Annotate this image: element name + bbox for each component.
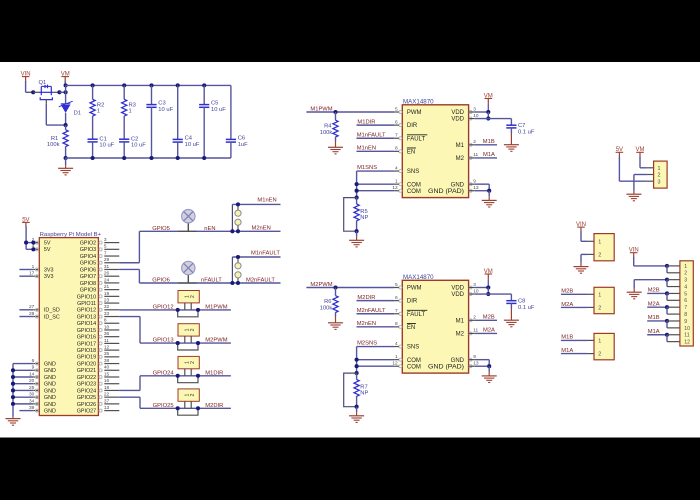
pin 2 M1 of M1 driver <box>469 143 472 146</box>
svg-text:GPIO12: GPIO12 <box>153 305 174 311</box>
pin 1 COM of M1 driver <box>399 183 402 186</box>
svg-text:M2DIR: M2DIR <box>205 403 223 409</box>
svg-text:10: 10 <box>104 324 110 330</box>
svg-text:GPIO3: GPIO3 <box>80 247 96 253</box>
node COM junctions <box>355 358 359 362</box>
pin GND (pin 34) of J1 <box>33 403 39 405</box>
svg-text:VDD: VDD <box>451 117 464 123</box>
svg-text:35: 35 <box>104 351 110 357</box>
wire SNS to COM bus <box>356 347 358 374</box>
pin GPIO17 (pin 11) of J1 <box>104 342 119 344</box>
svg-text:GPIO6: GPIO6 <box>80 267 96 273</box>
svg-text:GPIO5: GPIO5 <box>152 226 170 232</box>
resistor R4 100k <box>335 112 337 120</box>
svg-text:M2: M2 <box>456 332 465 338</box>
svg-text:7: 7 <box>684 305 687 311</box>
resistor R1 100k <box>65 125 67 130</box>
svg-text:GPIO17: GPIO17 <box>77 341 96 347</box>
svg-text:C8: C8 <box>518 299 525 305</box>
svg-text:18: 18 <box>104 385 110 391</box>
svg-text:M1: M1 <box>456 143 465 149</box>
pin 10 VDD of M2 driver <box>469 293 472 296</box>
ground VIN connector <box>574 266 589 268</box>
wire pin 2 to ground <box>634 174 647 176</box>
svg-text:10: 10 <box>684 326 690 332</box>
connector body M2 <box>587 293 594 295</box>
jumper JP2 <box>178 324 199 336</box>
node R1 bottom rail <box>64 156 68 160</box>
ground 12-pin header <box>627 291 642 293</box>
wire VDD pins <box>469 287 475 289</box>
svg-text:M1nFAULT: M1nFAULT <box>357 132 386 138</box>
pin 13 GND (PAD) of M1 driver <box>469 189 472 192</box>
pin GND (pin 20) of J1 <box>33 383 39 385</box>
svg-text:10 uF: 10 uF <box>211 107 226 113</box>
pin GPIO19 (pin 35) of J1 <box>104 356 119 358</box>
svg-text:3V3: 3V3 <box>44 274 54 280</box>
wire M2A output <box>475 332 497 334</box>
svg-text:PWM: PWM <box>407 286 422 292</box>
wire VIN to pin 1 <box>580 232 582 242</box>
svg-text:GPIO2: GPIO2 <box>80 241 96 247</box>
wire COM pins <box>357 183 395 185</box>
svg-text:31: 31 <box>104 264 110 270</box>
wire GPIO24 to jumper <box>119 389 140 391</box>
svg-text:GND: GND <box>44 402 56 408</box>
pin GPIO27 (pin 13) of J1 <box>104 410 119 412</box>
svg-text:C4: C4 <box>185 135 193 141</box>
wire pin 2 to ground <box>581 253 587 255</box>
ground M2 driver <box>488 366 490 372</box>
svg-text:1: 1 <box>684 264 687 270</box>
connector 12-pin header <box>680 261 693 346</box>
node 5V junctions <box>24 241 28 245</box>
capacitor C4 10 uF <box>176 83 180 87</box>
pin 12 COM of M1 driver <box>399 189 402 192</box>
ground J1 <box>12 417 14 419</box>
svg-text:DIR: DIR <box>407 123 418 129</box>
svg-text:COM: COM <box>407 364 421 370</box>
wire M1nEN input <box>357 150 395 152</box>
svg-text:SNS: SNS <box>407 345 419 351</box>
pin 8 EN of M2 driver <box>399 325 402 328</box>
pin 1 COM of M2 driver <box>399 358 402 361</box>
svg-text:1: 1 <box>129 109 132 115</box>
wire VM top rail <box>66 84 231 86</box>
pin 3V3 (pin 17) of J1 <box>33 275 39 277</box>
svg-text:1: 1 <box>598 292 601 298</box>
svg-text:M2PWM: M2PWM <box>205 338 227 344</box>
pin 11 M2 of M1 driver <box>469 156 472 159</box>
pin GPIO2 (pin 3) of J1 <box>104 242 119 244</box>
svg-text:M1: M1 <box>456 318 465 324</box>
pin GPIO24 (pin 18) of J1 <box>104 389 119 391</box>
svg-text:GPIO25: GPIO25 <box>153 403 174 409</box>
pin GPIO23 (pin 16) of J1 <box>104 383 119 385</box>
pin ID_SC (pin 28) of J1 <box>33 316 39 318</box>
svg-text:2: 2 <box>190 394 196 397</box>
svg-text:M2nEN: M2nEN <box>357 321 376 327</box>
capacitor C8 0.1 uF <box>506 300 516 302</box>
ground 3-pin connector <box>626 193 641 195</box>
wire GPIO5 to nEN <box>119 262 139 264</box>
ground C7 <box>510 128 512 133</box>
svg-text:GND: GND <box>44 368 56 374</box>
svg-text:GPIO12: GPIO12 <box>77 308 96 314</box>
wire M2A <box>561 306 588 308</box>
node D1/R1/gate junction <box>64 123 68 127</box>
pin GPIO10 (pin 19) of J1 <box>104 295 119 297</box>
svg-text:4: 4 <box>684 284 687 290</box>
node VIN-Q1 junction <box>31 90 35 94</box>
wire GPIO6 to nFAULT <box>119 268 139 270</box>
svg-text:32: 32 <box>104 304 110 310</box>
wire D1 to node <box>65 113 67 125</box>
svg-text:M1PWM: M1PWM <box>310 106 332 112</box>
wire nEN branch left <box>231 204 233 231</box>
svg-text:C7: C7 <box>518 123 525 129</box>
node GND junction <box>487 189 491 193</box>
svg-text:2: 2 <box>598 352 601 358</box>
wire COM pins <box>357 359 395 361</box>
svg-text:5: 5 <box>684 291 687 297</box>
wire Q1 drain to VM rail <box>53 91 59 93</box>
pin GPIO18 (pin 12) of J1 <box>104 349 119 351</box>
svg-text:R6: R6 <box>324 299 331 305</box>
pin GPIO16 (pin 36) of J1 <box>104 336 119 338</box>
pin GND (pin 6) of J1 <box>33 363 39 365</box>
wire 5V bus <box>25 227 27 250</box>
svg-text:100k: 100k <box>320 130 333 136</box>
node GND junction <box>487 364 491 368</box>
wire M1nEN <box>232 203 280 205</box>
svg-text:0.1 uF: 0.1 uF <box>518 130 535 136</box>
ground M1 driver <box>488 191 490 197</box>
svg-text:GPIO10: GPIO10 <box>77 294 96 300</box>
wire M1PWM input <box>306 111 394 113</box>
pin GPIO3 (pin 5) of J1 <box>104 248 119 250</box>
svg-text:29: 29 <box>104 257 110 263</box>
wire jumper bypass JP3 <box>178 376 198 383</box>
svg-text:0.1 uF: 0.1 uF <box>518 305 535 311</box>
wire VDD to bypass cap <box>488 293 511 295</box>
svg-text:GPIO25: GPIO25 <box>77 395 96 401</box>
svg-text:C5: C5 <box>211 100 218 106</box>
pin GND (pin 39) of J1 <box>33 410 39 412</box>
pin 8 EN of M1 driver <box>399 150 402 153</box>
svg-text:23: 23 <box>104 297 110 303</box>
svg-text:EN: EN <box>407 149 415 155</box>
svg-text:M1PWM: M1PWM <box>205 305 227 311</box>
svg-text:NP: NP <box>360 391 368 397</box>
svg-text:16: 16 <box>104 378 110 384</box>
capacitor C7 0.1 uF <box>506 124 516 126</box>
wire VIN to Q1 <box>25 81 27 92</box>
wire M2DIR input <box>357 300 395 302</box>
node R5 bottom <box>355 229 359 233</box>
node COM junctions <box>355 182 359 186</box>
pin GPIO25 (pin 22) of J1 <box>104 396 119 398</box>
wire SNS to COM bus <box>356 171 358 198</box>
svg-text:R2: R2 <box>97 102 104 108</box>
svg-text:2: 2 <box>598 306 601 312</box>
svg-text:GPIO8: GPIO8 <box>80 281 96 287</box>
svg-text:GPIO23: GPIO23 <box>77 382 96 388</box>
pin ID_SD (pin 27) of J1 <box>33 309 39 311</box>
svg-text:3: 3 <box>658 179 661 185</box>
wire M1B to pins 9-10 <box>647 320 667 322</box>
connector body M1 <box>587 339 594 341</box>
svg-text:5V: 5V <box>44 247 51 253</box>
svg-text:R1: R1 <box>51 136 58 142</box>
svg-text:1: 1 <box>598 239 601 245</box>
svg-text:10 uF: 10 uF <box>158 107 173 113</box>
capacitor C2 10 uF <box>119 138 129 140</box>
svg-text:MAX14870: MAX14870 <box>403 275 434 281</box>
svg-text:GPIO7: GPIO7 <box>80 274 96 280</box>
svg-text:12: 12 <box>684 340 690 346</box>
svg-text:M1SNS: M1SNS <box>357 165 377 171</box>
svg-text:M2B: M2B <box>483 315 495 321</box>
svg-text:nEN: nEN <box>204 226 215 232</box>
wire GND pins <box>469 359 475 361</box>
svg-text:1uF: 1uF <box>238 142 248 148</box>
svg-text:38: 38 <box>104 358 110 364</box>
node nFAULT branch junctions <box>236 255 240 259</box>
resistor R3 1 <box>122 83 126 87</box>
wire GPIO25 to jumper <box>119 396 140 398</box>
pin GPIO20 (pin 38) of J1 <box>104 363 119 365</box>
wire M1A output <box>475 157 497 159</box>
svg-text:21: 21 <box>104 284 110 290</box>
pin 3 VDD of M1 driver <box>469 111 472 114</box>
node nEN branch junctions <box>236 202 240 206</box>
svg-text:R4: R4 <box>324 123 332 129</box>
wire M1A to pins 11-12 <box>647 334 667 336</box>
pin 4 SNS of M2 driver <box>399 345 402 348</box>
wire M1B output <box>475 144 497 146</box>
pin GPIO22 (pin 15) of J1 <box>104 376 119 378</box>
node C1 rail <box>91 156 95 160</box>
capacitor C5 10 uF <box>202 83 206 87</box>
solder jumpers nFAULT to M1nFAULT/M2nFAULT <box>237 257 239 263</box>
pin GPIO9 (pin 21) of J1 <box>104 289 119 291</box>
svg-text:M1B: M1B <box>483 139 495 145</box>
svg-text:40: 40 <box>104 365 110 371</box>
svg-text:SNS: SNS <box>407 169 419 175</box>
solder jumpers nEN to M1nEN/M2nEN <box>237 204 239 210</box>
ground R7 sense <box>356 407 358 413</box>
wire unconnected stub pin 1 <box>19 268 33 270</box>
pin 5 PWM of M1 driver <box>399 111 402 114</box>
wire unconnected stub pin 27 <box>19 309 33 311</box>
wire jumper bypass JP2 <box>178 343 198 350</box>
svg-text:M2PWM: M2PWM <box>310 282 332 288</box>
wire M1nFAULT <box>232 256 280 258</box>
resistor R5 NP sense <box>356 198 358 204</box>
pin 7 FAULT of M1 driver <box>399 137 402 140</box>
svg-text:2: 2 <box>190 328 196 331</box>
ground R4 pulldown <box>335 137 337 141</box>
svg-text:COM: COM <box>407 358 421 364</box>
svg-text:C6: C6 <box>238 135 245 141</box>
svg-text:GPIO4: GPIO4 <box>80 254 96 260</box>
node jumper JP1 <box>176 308 180 312</box>
svg-text:1: 1 <box>598 339 601 345</box>
pin 5 PWM of M2 driver <box>399 286 402 289</box>
resistor R6 100k <box>335 288 337 296</box>
svg-text:GND: GND <box>44 388 56 394</box>
svg-text:8: 8 <box>104 318 107 324</box>
svg-text:2: 2 <box>598 253 601 259</box>
pin 9 GND of M2 driver <box>469 358 472 361</box>
svg-text:GPIO5: GPIO5 <box>80 261 96 267</box>
pin GPIO5 (pin 29) of J1 <box>104 262 119 264</box>
pin GND (pin 30) of J1 <box>33 396 39 398</box>
svg-text:VDD: VDD <box>451 292 464 298</box>
svg-text:GPIO16: GPIO16 <box>77 335 96 341</box>
wire M2nFAULT input <box>357 313 395 315</box>
svg-text:GPIO21: GPIO21 <box>77 368 96 374</box>
wire M1A <box>561 353 588 355</box>
svg-text:GND: GND <box>44 395 56 401</box>
wire R7 bypass loop <box>344 373 357 407</box>
svg-text:GPIO18: GPIO18 <box>77 348 96 354</box>
connector body 3-pin <box>647 167 654 169</box>
svg-text:10 uF: 10 uF <box>99 142 114 148</box>
wire VM column <box>65 85 67 104</box>
svg-text:M2A: M2A <box>483 328 495 334</box>
pin 6 DIR of M2 driver <box>399 299 402 302</box>
svg-text:M2nFAULT: M2nFAULT <box>357 308 386 314</box>
white schematic sheet <box>0 62 700 438</box>
svg-text:GND: GND <box>44 375 56 381</box>
svg-text:100k: 100k <box>47 142 60 148</box>
svg-text:M2nEN: M2nEN <box>252 226 271 232</box>
svg-text:11: 11 <box>684 333 689 339</box>
jumper JP3 <box>178 356 199 368</box>
pin GPIO6 (pin 31) of J1 <box>104 268 119 270</box>
svg-text:MAX14870: MAX14870 <box>403 99 434 105</box>
svg-text:3: 3 <box>104 237 107 243</box>
svg-text:2: 2 <box>684 271 687 277</box>
pin GND (pin 25) of J1 <box>33 389 39 391</box>
node GND bus junctions <box>11 368 15 372</box>
svg-text:ID_SD: ID_SD <box>44 308 60 314</box>
svg-text:FAULT: FAULT <box>407 312 426 318</box>
svg-text:C3: C3 <box>158 100 165 106</box>
svg-text:100k: 100k <box>320 305 333 311</box>
svg-text:GND: GND <box>44 361 56 367</box>
svg-text:37: 37 <box>104 398 110 404</box>
pin 2 M1 of M2 driver <box>469 319 472 322</box>
wire M2SNS input <box>357 346 395 348</box>
node M1PWM / pulldown <box>333 110 337 114</box>
pin GPIO4 (pin 7) of J1 <box>104 255 119 257</box>
svg-text:FAULT: FAULT <box>407 136 426 142</box>
svg-text:M1DIR: M1DIR <box>357 119 375 125</box>
svg-text:NP: NP <box>360 215 368 221</box>
node C2 rail <box>122 156 126 160</box>
svg-text:33: 33 <box>104 311 110 317</box>
svg-text:8: 8 <box>684 312 687 318</box>
svg-text:M2nFAULT: M2nFAULT <box>246 277 275 283</box>
jumper JP1 <box>178 291 199 303</box>
svg-text:24: 24 <box>104 277 110 283</box>
pin 10 VDD of M1 driver <box>469 117 472 120</box>
capacitor C6 1uF <box>230 85 232 139</box>
pin 7 FAULT of M2 driver <box>399 312 402 315</box>
svg-text:12: 12 <box>104 345 110 351</box>
wire VM to pin 1 <box>639 157 641 168</box>
ground C8 <box>510 303 512 308</box>
svg-text:36: 36 <box>104 331 110 337</box>
jumper JP4 <box>178 389 199 401</box>
svg-text:22: 22 <box>104 392 110 398</box>
svg-text:GPIO20: GPIO20 <box>77 361 96 367</box>
wire GPIO13 to jumper <box>119 316 140 318</box>
capacitor C1 10 uF <box>88 138 98 140</box>
wire M1nFAULT input <box>357 137 395 139</box>
svg-text:M1nEN: M1nEN <box>257 198 276 204</box>
svg-text:nFAULT: nFAULT <box>201 278 222 284</box>
svg-text:GPIO11: GPIO11 <box>77 301 96 307</box>
svg-text:GPIO6: GPIO6 <box>152 278 170 284</box>
svg-text:M2DIR: M2DIR <box>357 295 375 301</box>
wire R5 bypass loop <box>344 198 357 232</box>
svg-text:GPIO13: GPIO13 <box>77 314 96 320</box>
svg-text:3V3: 3V3 <box>44 267 54 273</box>
svg-text:EN: EN <box>407 325 415 331</box>
svg-text:VDD: VDD <box>451 286 464 292</box>
svg-text:1: 1 <box>97 109 100 115</box>
wire unconnected stub pin 39 <box>19 410 33 412</box>
capacitor C3 10 uF <box>149 83 153 87</box>
svg-text:GND: GND <box>44 409 56 415</box>
wire 5V to pin 3 <box>618 157 620 182</box>
resistor R2 1 <box>91 83 95 87</box>
svg-text:GPIO9: GPIO9 <box>80 288 96 294</box>
pin GPIO21 (pin 40) of J1 <box>104 369 119 371</box>
wire M2A to pins 7-8 <box>647 306 667 308</box>
pin GPIO8 (pin 24) of J1 <box>104 282 119 284</box>
svg-text:GPIO22: GPIO22 <box>77 375 96 381</box>
svg-text:2: 2 <box>190 295 196 298</box>
pin 13 GND (PAD) of M2 driver <box>469 365 472 368</box>
pin 5V (pin 4) of J1 <box>33 248 39 250</box>
pin 4 SNS of M1 driver <box>399 170 402 173</box>
wire M1B <box>561 339 588 341</box>
node M2PWM / pulldown <box>333 285 337 289</box>
wire jumper bypass JP4 <box>178 408 198 415</box>
svg-text:19: 19 <box>104 291 110 297</box>
svg-text:GPIO24: GPIO24 <box>153 370 175 376</box>
svg-text:GPIO26: GPIO26 <box>77 402 96 408</box>
svg-text:7: 7 <box>104 250 107 256</box>
svg-text:ID_SC: ID_SC <box>44 314 60 320</box>
wire M2B output <box>475 319 497 321</box>
svg-text:R5: R5 <box>360 209 367 215</box>
svg-text:13: 13 <box>104 405 110 411</box>
pin GPIO12 (pin 32) of J1 <box>104 309 119 311</box>
wire VDD to bypass cap <box>488 118 511 120</box>
svg-text:GND (PAD): GND (PAD) <box>428 364 464 370</box>
pin GPIO26 (pin 37) of J1 <box>104 403 119 405</box>
pin 9 GND of M1 driver <box>469 183 472 186</box>
ground power rail <box>65 158 67 165</box>
svg-text:26: 26 <box>104 271 110 277</box>
resistor R7 NP sense <box>356 373 358 379</box>
